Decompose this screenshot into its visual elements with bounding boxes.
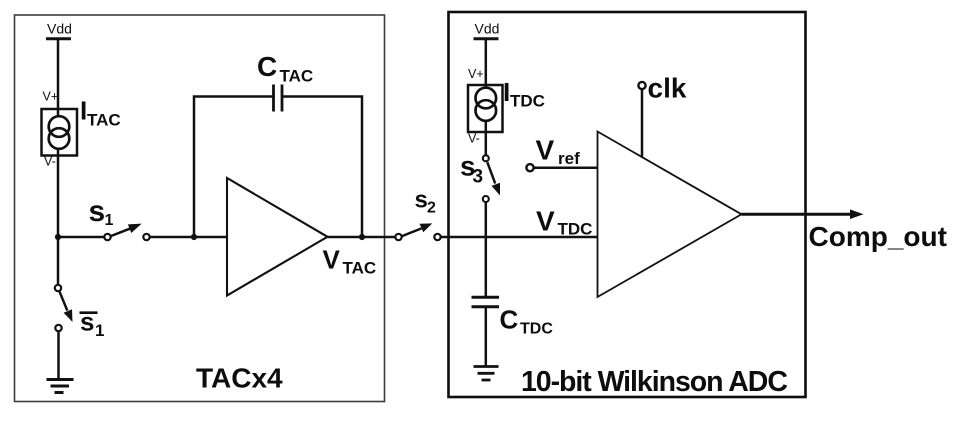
svg-text:ref: ref	[558, 149, 580, 168]
wire Vdd to I_TDC	[485, 39, 488, 89]
svg-text:V: V	[536, 206, 555, 237]
label C_TAC	[257, 51, 313, 86]
wire Vdd to I_TAC	[57, 39, 60, 117]
output wire Comp_out	[742, 213, 852, 216]
switch s1	[104, 224, 149, 241]
TACx4 block box	[15, 15, 385, 402]
label s3	[460, 151, 483, 188]
svg-text:s: s	[80, 306, 94, 336]
svg-text:Vdd: Vdd	[47, 21, 72, 37]
ground (TAC)	[47, 380, 74, 393]
svg-text:V-: V-	[468, 132, 480, 146]
wire s1 to op-amp input	[150, 236, 227, 239]
Vdd bar (TAC)	[46, 37, 71, 40]
node C junction op-amp output	[359, 234, 365, 240]
wire I_TAC to node A	[57, 148, 60, 237]
label s2	[415, 187, 437, 217]
svg-text:10-bit Wilkinson ADC: 10-bit Wilkinson ADC	[521, 366, 787, 398]
clk terminal	[638, 82, 645, 89]
label I_TAC	[80, 95, 121, 129]
wire I_TDC to switch s3	[485, 121, 488, 156]
svg-text:1: 1	[105, 212, 114, 229]
label C_TDC	[500, 305, 554, 338]
svg-text:V: V	[323, 245, 341, 275]
svg-text:TDC: TDC	[510, 91, 545, 110]
svg-text:V: V	[536, 135, 555, 166]
wire C_TDC to ground	[485, 307, 488, 367]
svg-text:TDC: TDC	[558, 219, 593, 238]
svg-text:C: C	[257, 51, 277, 82]
wire feedback left	[194, 97, 273, 238]
svg-text:TAC: TAC	[87, 111, 121, 130]
label I_TDC	[503, 77, 545, 110]
current source I_TDC	[468, 85, 503, 132]
current source I_TAC	[42, 109, 78, 156]
wire node A to switch s1	[58, 236, 105, 239]
svg-text:Comp_out: Comp_out	[809, 221, 947, 252]
svg-text:V+: V+	[468, 67, 484, 81]
switch s2	[395, 223, 440, 240]
label V_ref	[536, 135, 581, 169]
wire V_ref to comparator	[534, 166, 598, 169]
Vdd bar (TDC)	[474, 37, 499, 40]
wire clk to comparator	[641, 90, 644, 158]
10-bit Wilkinson ADC block box	[449, 12, 806, 397]
capacitor C_TDC	[472, 297, 500, 307]
wire s1bar to ground	[57, 332, 60, 380]
ground (TDC)	[474, 367, 499, 381]
output arrowhead	[850, 209, 864, 219]
wire op-amp output to switch s2	[328, 236, 396, 239]
wire feedback right	[282, 97, 362, 238]
switch s1bar	[55, 285, 73, 331]
node A junction	[55, 234, 61, 240]
wire node A down to switch s1bar	[57, 237, 60, 285]
svg-text:TACx4: TACx4	[196, 363, 283, 394]
wire s3 to capacitor C_TDC	[485, 203, 488, 298]
svg-text:V+: V+	[43, 90, 59, 104]
svg-text:2: 2	[427, 200, 436, 217]
switch s3	[483, 155, 500, 202]
svg-text:s: s	[89, 195, 106, 228]
svg-text:s: s	[415, 187, 428, 214]
op-amp U1	[227, 178, 328, 296]
capacitor C_TAC	[274, 85, 283, 112]
node B junction feedback tap	[191, 234, 197, 240]
svg-text:Vdd: Vdd	[475, 21, 500, 37]
label V_TDC	[536, 206, 592, 239]
svg-text:3: 3	[473, 167, 484, 188]
svg-text:TAC: TAC	[343, 259, 377, 278]
label s1	[89, 195, 114, 229]
svg-text:clk: clk	[648, 73, 687, 104]
svg-text:TDC: TDC	[520, 320, 553, 337]
label s1bar	[80, 306, 105, 340]
svg-text:1: 1	[95, 321, 104, 340]
label V_TAC	[323, 245, 377, 278]
svg-text:TAC: TAC	[280, 67, 314, 86]
V_ref terminal	[526, 164, 533, 171]
wire s2 to comparator V_TDC input	[441, 236, 598, 239]
svg-text:V-: V-	[44, 155, 56, 169]
comparator U2	[598, 132, 742, 298]
svg-text:C: C	[500, 305, 519, 335]
